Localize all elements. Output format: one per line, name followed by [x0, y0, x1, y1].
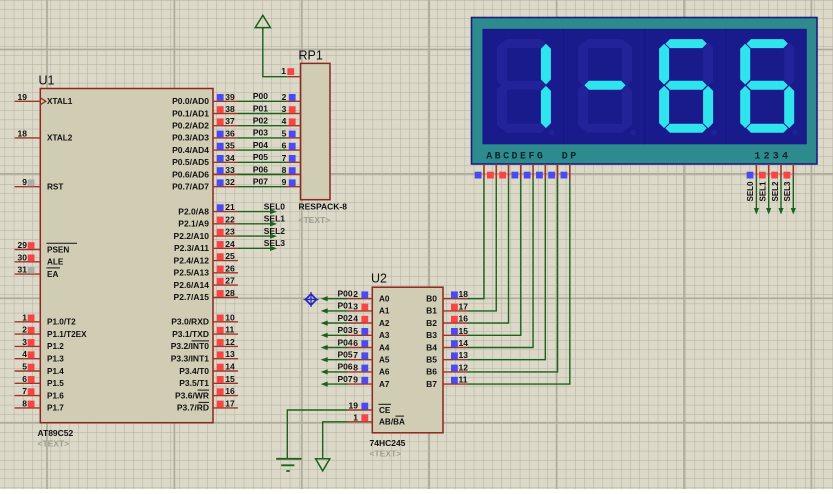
RP1 reference label [299, 49, 323, 63]
wire P05: U1 pin 34 to RP1 pin 7 [238, 161, 287, 163]
svg-text:13: 13 [459, 350, 469, 360]
U1 pin 28 P2.7/A15 [174, 288, 238, 302]
wire P03: U1 pin 36 to RP1 pin 5 [238, 137, 287, 139]
U1 pin 12 P3.2/INT0 [171, 337, 238, 351]
net label SEL0 (vertical) [746, 181, 755, 202]
svg-text:16: 16 [459, 314, 469, 324]
svg-text:B2: B2 [426, 318, 437, 328]
svg-text:21: 21 [225, 202, 235, 212]
U2 value label 74HC245 [370, 438, 406, 448]
U1 pin 19 XTAL1 [15, 92, 73, 106]
4-digit 7-segment display body [472, 18, 818, 165]
svg-text:A1: A1 [379, 307, 390, 316]
wire U2 B4 to display segment pin [468, 179, 534, 348]
svg-text:7: 7 [282, 153, 287, 163]
U2 pin 2 A0 [348, 289, 390, 303]
resistor pack RP1 body [301, 63, 330, 199]
U2 pin 11 B7 [426, 375, 468, 389]
wire U2 B1 to display segment pin [468, 179, 497, 311]
wire net P04 to U2 A4 [321, 345, 348, 350]
svg-text:2: 2 [353, 289, 358, 299]
svg-text:P1.1/T2EX: P1.1/T2EX [47, 330, 87, 339]
svg-text:XTAL2: XTAL2 [47, 134, 73, 143]
svg-text:1: 1 [353, 412, 358, 422]
svg-text:CE: CE [379, 406, 391, 415]
U1 pin 11 P3.1/TXD [172, 325, 238, 339]
net label SEL2 [264, 226, 286, 236]
net label P07 [253, 177, 268, 187]
U2 pin 15 B3 [426, 326, 468, 340]
U1 pin 24 P2.3/A11 [174, 239, 238, 253]
svg-text:SEL2: SEL2 [264, 226, 286, 236]
display digit 3 showing 6 [659, 39, 717, 135]
svg-text:RESPACK-8: RESPACK-8 [299, 202, 348, 212]
svg-text:31: 31 [18, 265, 28, 275]
net label SEL1 [264, 214, 286, 224]
svg-text:A6: A6 [379, 368, 390, 377]
svg-text:P3.3/INT1: P3.3/INT1 [171, 354, 210, 364]
display segment pin F [536, 164, 545, 179]
wire RP1 pin1 to VCC [263, 29, 287, 77]
U1 pin 34 P0.5/AD5 [172, 153, 238, 167]
net label P06 [253, 164, 268, 174]
display digit 1 showing 1 [497, 39, 555, 135]
svg-text:74HC245: 74HC245 [370, 438, 406, 448]
svg-text:26: 26 [225, 263, 235, 273]
svg-text:P06: P06 [337, 362, 352, 372]
svg-text:P2.3/A11: P2.3/A11 [174, 243, 209, 253]
svg-text:1: 1 [281, 66, 286, 76]
svg-text:P03: P03 [337, 325, 352, 335]
svg-text:G: G [537, 152, 543, 163]
svg-text:A: A [486, 152, 492, 163]
svg-text:8: 8 [282, 165, 287, 175]
U1 pin 21 P2.0/A8 [178, 202, 238, 216]
svg-text:B6: B6 [426, 367, 437, 377]
buffer U2 74HC245 body [372, 287, 443, 433]
wire U2 B0 to display segment pin [468, 179, 485, 299]
svg-text:P1.0/T2: P1.0/T2 [47, 318, 76, 327]
svg-text:P0.5/AD5: P0.5/AD5 [172, 157, 209, 167]
net label SEL1 (vertical) [759, 181, 768, 202]
U1 pin 2 P1.1/T2EX [15, 325, 88, 339]
svg-text:P0.4/AD4: P0.4/AD4 [172, 145, 209, 155]
U2 pin 14 B4 [426, 338, 468, 352]
svg-text:11: 11 [225, 325, 234, 335]
U1 pin 39 P0.0/AD0 [172, 92, 238, 106]
svg-text:9: 9 [282, 177, 287, 187]
svg-text:4: 4 [353, 314, 358, 324]
svg-text:P01: P01 [253, 103, 268, 113]
net label P05 at U2 [337, 350, 352, 360]
svg-text:A7: A7 [379, 380, 390, 389]
U2 pin 4 A2 [348, 314, 390, 328]
U1 pin 1 P1.0/T2 [15, 312, 77, 326]
svg-text:38: 38 [225, 104, 235, 114]
wire P02: U1 pin 37 to RP1 pin 4 [238, 125, 287, 127]
svg-text:SEL0: SEL0 [746, 181, 755, 202]
svg-text:B4: B4 [426, 342, 437, 352]
U1 pin 10 P3.0/RXD [171, 312, 238, 326]
svg-text:7: 7 [22, 386, 27, 396]
wire U2 B5 to display segment pin [468, 179, 546, 360]
wire P04: U1 pin 35 to RP1 pin 6 [238, 149, 287, 151]
svg-text:P1.6: P1.6 [47, 391, 64, 400]
net label P04 at U2 [337, 337, 352, 347]
svg-text:SEL3: SEL3 [783, 181, 792, 202]
svg-text:P2.7/A15: P2.7/A15 [174, 292, 210, 302]
wire select digit 3 [778, 177, 783, 215]
svg-text:2: 2 [764, 152, 770, 163]
svg-text:P3.1/TXD: P3.1/TXD [172, 329, 209, 339]
svg-text:P0.2/AD2: P0.2/AD2 [172, 121, 209, 131]
origin marker (blue diamond) [304, 292, 319, 307]
display segment labels ABCDEFG DP [486, 152, 576, 163]
net label SEL3 (vertical) [783, 181, 792, 202]
svg-text:37: 37 [225, 116, 235, 126]
svg-text:XTAL1: XTAL1 [47, 97, 73, 106]
wire SEL1 from U1 pin 22 [238, 221, 277, 226]
U2 reference label [371, 272, 387, 286]
svg-text:P1.5: P1.5 [47, 379, 64, 388]
svg-text:P3.5/T1: P3.5/T1 [179, 378, 209, 388]
U1 pin 9 RST [15, 177, 64, 191]
U1 pin 31 EA [15, 265, 60, 279]
svg-text:9: 9 [22, 177, 27, 187]
net label P00 [253, 91, 268, 101]
svg-text:12: 12 [459, 362, 469, 372]
svg-text:P3.4/T0: P3.4/T0 [179, 366, 209, 376]
svg-text:P0.3/AD3: P0.3/AD3 [172, 133, 209, 143]
net label P02 at U2 [337, 313, 352, 323]
wire P00: U1 pin 39 to RP1 pin 2 [238, 100, 287, 102]
svg-text:P2.4/A12: P2.4/A12 [174, 255, 210, 265]
display segment pin D [511, 164, 520, 179]
U2 pin 3 A1 [348, 301, 390, 315]
svg-text:P00: P00 [337, 289, 352, 299]
svg-text:P3.0/RXD: P3.0/RXD [171, 317, 209, 327]
svg-text:SEL1: SEL1 [264, 214, 286, 224]
U2 pin 12 B6 [426, 362, 468, 376]
U1 pin 4 P1.3 [15, 349, 65, 363]
svg-text:23: 23 [225, 227, 235, 237]
U1 pin 33 P0.6/AD6 [172, 165, 238, 179]
U1 pin 14 P3.4/T0 [179, 362, 238, 376]
svg-text:EA: EA [47, 270, 58, 279]
net label SEL0 [264, 201, 286, 211]
display select pin 1 [747, 164, 757, 179]
svg-text:A0: A0 [379, 295, 390, 304]
U2 pin 5 A3 [348, 326, 390, 340]
U1 text placeholder [38, 439, 70, 449]
svg-text:8: 8 [353, 362, 358, 372]
svg-text:5: 5 [22, 362, 27, 372]
svg-text:SEL2: SEL2 [771, 181, 780, 202]
svg-text:30: 30 [18, 252, 28, 262]
U2 pin 6 A4 [348, 338, 390, 352]
U1 pin 8 P1.7 [15, 398, 65, 412]
svg-text:P04: P04 [253, 140, 268, 150]
wire SEL0 from U1 pin 21 [238, 209, 277, 214]
svg-text:P3.6/WR: P3.6/WR [175, 390, 209, 400]
svg-text:P02: P02 [337, 313, 352, 323]
wire net P07 to U2 A7 [321, 382, 348, 387]
RP1 pin 6 [282, 141, 301, 151]
svg-text:17: 17 [225, 398, 235, 408]
svg-text:B7: B7 [426, 379, 437, 389]
svg-text:25: 25 [225, 251, 235, 261]
svg-text:3: 3 [773, 152, 779, 163]
svg-text:29: 29 [18, 240, 28, 250]
svg-text:P2.0/A8: P2.0/A8 [178, 206, 209, 216]
wire select digit 1 [754, 177, 759, 215]
svg-text:3: 3 [282, 104, 287, 114]
U1 pin 5 P1.4 [15, 362, 65, 376]
svg-text:B: B [495, 152, 501, 163]
svg-text:SEL3: SEL3 [264, 238, 286, 248]
wire select digit 4 [791, 177, 796, 215]
U1 pin 13 P3.3/INT1 [171, 349, 238, 363]
svg-text:P0.1/AD1: P0.1/AD1 [172, 108, 209, 118]
svg-text:4: 4 [282, 116, 287, 126]
svg-text:12: 12 [225, 337, 235, 347]
svg-text:P04: P04 [337, 337, 352, 347]
RP1 pin 7 [282, 153, 301, 163]
display select pin 4 [784, 164, 794, 179]
svg-text:P3.2/INT0: P3.2/INT0 [171, 341, 210, 351]
svg-text:5: 5 [353, 326, 358, 336]
svg-text:P1.2: P1.2 [47, 342, 64, 351]
U1 pin 16 P3.6/WR [175, 386, 238, 400]
U1 pin 38 P0.1/AD1 [172, 104, 238, 118]
svg-text:14: 14 [225, 362, 235, 372]
svg-text:1: 1 [22, 312, 27, 322]
U2 pin 7 A5 [348, 350, 390, 364]
svg-text:5: 5 [282, 128, 287, 138]
U2 text placeholder [370, 449, 402, 459]
U2 pin 18 B0 [426, 289, 468, 303]
svg-text:A4: A4 [379, 343, 390, 352]
svg-text:B5: B5 [426, 355, 437, 365]
svg-text:39: 39 [225, 92, 235, 102]
RP1 pin 1 [281, 66, 300, 77]
net label P07 at U2 [337, 374, 352, 384]
svg-text:6: 6 [353, 338, 358, 348]
display select pin 3 [771, 164, 781, 179]
svg-text:P1.4: P1.4 [47, 367, 64, 376]
svg-text:19: 19 [349, 401, 359, 411]
display segment pin DP [561, 164, 570, 179]
svg-text:P3.7/RD: P3.7/RD [177, 403, 209, 413]
wire net P05 to U2 A5 [321, 357, 348, 362]
svg-text:P01: P01 [337, 301, 352, 311]
net label SEL3 [264, 238, 286, 248]
display segment pin B [487, 164, 496, 179]
svg-text:7: 7 [353, 350, 358, 360]
svg-text:SEL0: SEL0 [264, 201, 286, 211]
svg-text:P05: P05 [253, 152, 268, 162]
U2 pin 1 AB/BA [347, 412, 405, 426]
svg-text:P07: P07 [253, 177, 268, 187]
svg-text:E: E [520, 152, 526, 163]
RP1 pin 4 [282, 116, 301, 126]
U1 pin 37 P0.2/AD2 [172, 116, 238, 130]
svg-text:P02: P02 [253, 116, 268, 126]
svg-text:B0: B0 [426, 294, 437, 304]
svg-text:F: F [528, 152, 534, 163]
svg-text:8: 8 [22, 398, 27, 408]
display digit cell separators [564, 29, 726, 145]
wire U2 AB/BA to power-down symbol [323, 422, 347, 459]
U1 pin 30 ALE [15, 252, 64, 266]
svg-text:4: 4 [782, 152, 788, 163]
svg-text:15: 15 [225, 374, 235, 384]
net label SEL2 (vertical) [771, 181, 780, 202]
svg-text:A3: A3 [379, 331, 390, 340]
U1 pin 23 P2.2/A10 [174, 227, 238, 241]
svg-text:P06: P06 [253, 164, 268, 174]
svg-text:32: 32 [225, 177, 235, 187]
svg-text:2: 2 [282, 92, 287, 102]
display segment pin E [524, 164, 533, 179]
svg-text:4: 4 [22, 349, 27, 359]
svg-text:P07: P07 [337, 374, 352, 384]
svg-text:D: D [512, 152, 518, 163]
RP1 pin 9 [282, 177, 301, 187]
svg-text:P2.2/A10: P2.2/A10 [174, 231, 210, 241]
display digit 4 showing 6 [740, 39, 798, 135]
display select pin 2 [759, 164, 769, 179]
svg-text:P00: P00 [253, 91, 268, 101]
svg-text:SEL1: SEL1 [759, 181, 768, 202]
RP1 text placeholder [299, 215, 331, 225]
U2 pin 17 B1 [426, 301, 468, 315]
svg-text:<TEXT>: <TEXT> [38, 439, 70, 449]
svg-text:U2: U2 [371, 272, 387, 286]
U1 pin 22 P2.1/A9 [178, 214, 238, 228]
svg-text:24: 24 [225, 239, 235, 249]
wire SEL2 from U1 pin 23 [238, 234, 277, 239]
net label P01 [253, 103, 268, 113]
net label P00 at U2 [337, 289, 352, 299]
wire net P00 to U2 A0 [321, 296, 348, 301]
svg-text:P0.0/AD0: P0.0/AD0 [172, 96, 209, 106]
svg-text:10: 10 [225, 312, 235, 322]
svg-text:34: 34 [225, 153, 235, 163]
net label P02 [253, 116, 268, 126]
net label P06 at U2 [337, 362, 352, 372]
U1 pin 6 P1.5 [15, 374, 65, 388]
svg-text:36: 36 [225, 128, 235, 138]
svg-text:RP1: RP1 [299, 49, 323, 63]
svg-text:PSEN: PSEN [47, 245, 69, 254]
wire U2 B2 to display segment pin [468, 179, 509, 323]
display segment pin A [475, 164, 484, 179]
wire net P06 to U2 A6 [321, 369, 348, 374]
svg-text:3: 3 [22, 337, 27, 347]
svg-text:P2.6/A14: P2.6/A14 [174, 280, 210, 290]
svg-text:P2.1/A9: P2.1/A9 [178, 219, 209, 229]
svg-text:19: 19 [18, 92, 28, 102]
svg-text:6: 6 [22, 374, 27, 384]
svg-text:18: 18 [18, 128, 28, 138]
wire select digit 2 [766, 177, 771, 215]
wire U2 CE to ground [287, 410, 347, 458]
svg-text:35: 35 [225, 141, 235, 151]
svg-text:27: 27 [225, 276, 235, 286]
U1 pin 15 P3.5/T1 [179, 374, 238, 388]
svg-text:<TEXT>: <TEXT> [370, 449, 402, 459]
wire net P01 to U2 A1 [321, 308, 348, 313]
svg-text:P: P [570, 152, 576, 163]
U1 pin 32 P0.7/AD7 [172, 177, 238, 191]
svg-text:P03: P03 [253, 128, 268, 138]
display digit-select labels 1234 [754, 152, 788, 163]
net label P04 [253, 140, 268, 150]
U1 pin 17 P3.7/RD [177, 398, 238, 412]
U1 pin 7 P1.6 [15, 386, 65, 400]
wire P01: U1 pin 38 to RP1 pin 3 [238, 113, 287, 115]
svg-text:3: 3 [353, 301, 358, 311]
svg-text:P0.6/AD6: P0.6/AD6 [172, 169, 209, 179]
svg-text:B3: B3 [426, 330, 437, 340]
svg-text:9: 9 [353, 375, 358, 385]
svg-text:28: 28 [225, 288, 235, 298]
svg-text:A2: A2 [379, 319, 390, 328]
wire P06: U1 pin 33 to RP1 pin 8 [238, 174, 287, 176]
U1 pin 35 P0.4/AD4 [172, 141, 238, 155]
microcontroller U1 body [40, 89, 213, 423]
U1 value label AT89C52 [38, 428, 74, 438]
U1 pin 3 P1.2 [15, 337, 65, 351]
U1 pin 18 XTAL2 [15, 128, 73, 142]
wire U2 B3 to display segment pin [468, 179, 521, 335]
svg-text:P1.3: P1.3 [47, 355, 64, 364]
U1 pin 27 P2.6/A14 [174, 276, 238, 290]
wire P07: U1 pin 32 to RP1 pin 9 [238, 186, 287, 188]
U1 pin 25 P2.4/A12 [174, 251, 238, 265]
svg-text:1: 1 [754, 152, 760, 163]
U1 pin 36 P0.3/AD3 [172, 128, 238, 142]
RP1 value label RESPACK-8 [299, 202, 348, 212]
net label P05 [253, 152, 268, 162]
wire net P02 to U2 A2 [321, 321, 348, 326]
svg-text:16: 16 [225, 386, 235, 396]
RP1 pin 3 [282, 104, 301, 114]
ground symbol [276, 459, 301, 471]
U1 pin 29 PSEN [15, 240, 77, 254]
RP1 pin 2 [282, 92, 301, 102]
svg-text:33: 33 [225, 165, 235, 175]
wire net P03 to U2 A3 [321, 333, 348, 338]
net label P01 at U2 [337, 301, 352, 311]
svg-text:17: 17 [459, 301, 469, 311]
U2 pin 9 A7 [348, 375, 390, 389]
display segment pin G [548, 164, 557, 179]
display digit 2 showing - [578, 39, 636, 135]
U2 pin 8 A6 [348, 362, 390, 376]
svg-text:14: 14 [459, 338, 469, 348]
U1 XTAL1 clock chevron [40, 98, 46, 105]
svg-text:6: 6 [282, 141, 287, 151]
net label P03 [253, 128, 268, 138]
svg-text:13: 13 [225, 349, 235, 359]
svg-text:C: C [503, 152, 509, 163]
svg-text:11: 11 [459, 375, 468, 385]
U2 pin 19 CE [347, 401, 391, 415]
svg-text:<TEXT>: <TEXT> [299, 215, 331, 225]
svg-text:AT89C52: AT89C52 [38, 428, 74, 438]
